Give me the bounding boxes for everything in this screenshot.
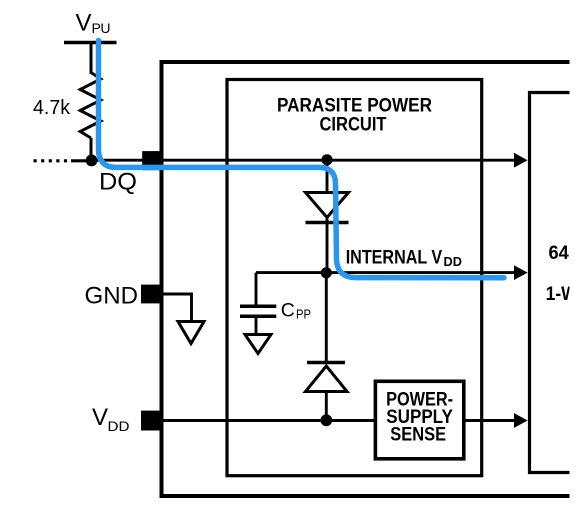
- diode D1 (pointing down): [306, 193, 349, 218]
- svg-text:V: V: [92, 404, 108, 431]
- wire resistor to DQ node: [90, 138, 93, 160]
- arrowhead internal VDD into right box: [514, 265, 528, 280]
- svg-text:PU: PU: [92, 20, 111, 36]
- wire VDD net right segment to arrow: [464, 419, 516, 422]
- node DQ junction dot: [86, 155, 98, 167]
- svg-text:DQ: DQ: [99, 168, 137, 195]
- blue highlight path VPU to internal VDD: [99, 41, 505, 278]
- arrowhead VDD sense into right box: [514, 413, 528, 428]
- arrowhead DQ into right box: [514, 153, 528, 168]
- label POWER-SUPPLY SENSE: [386, 390, 453, 446]
- wire capacitor to internal vdd node vertical: [255, 273, 258, 305]
- wire internal vdd node down to bottom diode: [325, 273, 328, 363]
- svg-text:C: C: [281, 300, 295, 322]
- svg-text:4.7k: 4.7k: [33, 97, 71, 119]
- wire dashed stub left of DQ node: [34, 159, 71, 162]
- label INTERNAL VDD: [346, 247, 462, 269]
- label PARASITE POWER CIRCUIT: [277, 95, 432, 136]
- wire top diode to internal vdd node: [326, 218, 329, 274]
- label Cpp: [281, 300, 311, 322]
- wire VPU bar to resistor: [90, 43, 93, 75]
- resistor R 4.7k zigzag: [80, 73, 101, 139]
- wire DQ node down to top diode: [326, 160, 329, 193]
- right box 64-BIT ROM AND 1-Wire PORT (cut off): [530, 93, 570, 473]
- svg-text:INTERNAL V: INTERNAL V: [346, 247, 443, 269]
- svg-text:V: V: [76, 10, 92, 37]
- ground symbol under Cpp: [245, 335, 271, 354]
- wire GND pin to ground symbol: [161, 294, 192, 322]
- pin DQ square: [142, 151, 163, 170]
- wire capacitor to ground: [255, 316, 258, 334]
- label VDD: [92, 404, 130, 434]
- svg-text:SENSE: SENSE: [390, 425, 446, 446]
- svg-text:GND: GND: [85, 283, 139, 310]
- VPU supply bar: [64, 41, 117, 45]
- ground symbol at GND pin: [178, 322, 204, 344]
- wire VDD net left segment: [161, 419, 375, 422]
- svg-text:PP: PP: [296, 307, 311, 322]
- svg-text:CIRCUIT: CIRCUIT: [320, 114, 387, 136]
- diode D2 (pointing up): [307, 361, 345, 364]
- label VPU: [76, 10, 111, 37]
- pin VDD square: [141, 411, 161, 431]
- wire internal VDD / Cpp net: [256, 271, 516, 274]
- box POWER-SUPPLY SENSE: [375, 381, 463, 459]
- node diode branch junction dot on DQ line: [321, 154, 332, 165]
- pin GND square: [141, 285, 161, 304]
- inner box PARASITE POWER CIRCUIT: [227, 80, 482, 476]
- svg-text:DD: DD: [444, 254, 462, 269]
- capacitor Cpp plates: [240, 304, 276, 308]
- wire bottom diode to VDD line: [325, 392, 328, 421]
- outer box (DS18B20 outline, right side cut off): [162, 62, 570, 496]
- node VDD junction dot: [320, 414, 332, 426]
- svg-text:DD: DD: [108, 418, 130, 434]
- wire DQ horizontal net: [92, 159, 517, 162]
- node internal VDD junction dot: [321, 267, 332, 278]
